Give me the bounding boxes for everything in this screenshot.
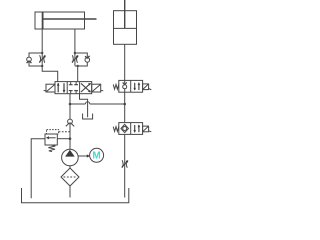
cylinder C1 barrel bbox=[35, 12, 85, 29]
valve V3 solenoid right bbox=[92, 84, 104, 92]
wire pump to filter bbox=[69, 166, 71, 168]
valve V3 left position arrows bbox=[57, 83, 66, 93]
relief valve RV spring bbox=[48, 145, 55, 152]
flow control valve FC2 throttle bbox=[72, 55, 79, 62]
wire A to valve V3 bbox=[42, 66, 58, 82]
wire port A of C1 bbox=[41, 29, 43, 53]
valve V1 solenoid bbox=[143, 84, 152, 90]
flow control valve FC2 main line bbox=[74, 53, 76, 66]
flow control valve FC1 check bypass bbox=[27, 53, 43, 66]
valve V2 position a check symbol bbox=[121, 124, 129, 132]
filter F bbox=[61, 168, 79, 186]
cylinder C2 (top right, vertical) bbox=[114, 0, 137, 44]
junction dot bbox=[69, 103, 72, 106]
wire C2 to valve V1 bbox=[124, 44, 126, 80]
valve V1 body bbox=[119, 80, 143, 92]
cylinder C1 rod bbox=[43, 18, 96, 20]
valve V3 solenoid left bbox=[44, 84, 55, 92]
cylinder C1 piston bbox=[42, 12, 44, 29]
branch line P to right column with hop bbox=[70, 102, 125, 104]
relief valve RV arrow bbox=[46, 136, 56, 139]
motor shaft bbox=[78, 154, 90, 157]
wire V2 down to throttle bbox=[124, 134, 126, 197]
wire port B of C1 bbox=[74, 29, 76, 53]
junction dot bbox=[69, 137, 72, 140]
junction dot bbox=[77, 65, 79, 67]
wire filter to tank bbox=[69, 186, 71, 198]
wire relief valve outlet to tank bbox=[31, 139, 45, 199]
wire relief valve inlet bbox=[57, 138, 70, 140]
flow control valve FC2 check bypass bbox=[75, 53, 90, 66]
junction dot bbox=[41, 65, 43, 67]
wire P port down from V3 bbox=[69, 94, 71, 120]
check valve CV on pump line bbox=[66, 119, 74, 126]
valve V1 position a seat symbol bbox=[123, 80, 127, 92]
valve V1 spring bbox=[113, 84, 119, 89]
throttle TH bbox=[122, 160, 129, 167]
wire check valve to pump bbox=[69, 124, 71, 149]
valve V2 solenoid bbox=[143, 126, 152, 132]
valve V3 right position crossed arrows bbox=[81, 83, 91, 92]
junction dot bbox=[123, 103, 126, 106]
motor M circle bbox=[90, 148, 104, 162]
main tank bbox=[22, 188, 129, 203]
valve V1 position b arrows bbox=[133, 82, 140, 90]
flow control valve FC1 throttle bbox=[39, 55, 46, 62]
junction dot bbox=[41, 52, 43, 54]
valve V3 centre position blocked ports bbox=[69, 82, 78, 94]
relief valve RV body bbox=[45, 130, 59, 145]
valve V3 4/3 body bbox=[55, 82, 92, 94]
flow control valve FC1 main line bbox=[41, 53, 43, 66]
tank symbol at T port bbox=[83, 114, 93, 120]
relief valve pilot dashed line bbox=[59, 131, 70, 133]
wire B to valve V3 bbox=[77, 66, 79, 82]
pump P1 bbox=[62, 149, 79, 166]
wire T port of V3 to local tank bbox=[80, 94, 88, 118]
wire V1 to junction bbox=[124, 92, 126, 122]
valve V2 body bbox=[119, 123, 143, 135]
junction dot bbox=[74, 52, 76, 54]
svg-text:M: M bbox=[92, 151, 100, 162]
valve V2 spring bbox=[113, 127, 119, 132]
valve V2 position b arrows bbox=[133, 125, 140, 133]
